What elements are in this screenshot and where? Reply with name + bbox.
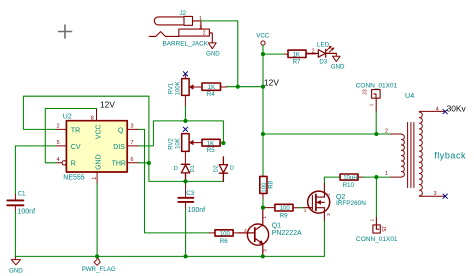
svg-text:1: 1 — [304, 208, 307, 213]
wire junction down to J5 — [375, 177, 377, 217]
wire THR pin to junction — [139, 162, 149, 164]
svg-text:100: 100 — [220, 231, 231, 237]
svg-text:4: 4 — [57, 157, 60, 163]
power flag PWR_FLAG — [94, 256, 100, 265]
svg-text:R10: R10 — [343, 182, 355, 189]
svg-text:DIS: DIS — [113, 144, 125, 151]
svg-text:1: 1 — [369, 103, 374, 106]
connector J5 CONN_01X01 — [373, 217, 380, 233]
svg-text:J5: J5 — [380, 226, 386, 232]
svg-text:2: 2 — [385, 128, 388, 134]
junction NE555 GND pin / PWR_FLAG / rail — [95, 254, 99, 258]
svg-text:RV1: RV1 — [168, 82, 174, 94]
wire barrel pin1 to 12V rail — [201, 21, 238, 87]
svg-text:D: D — [230, 166, 234, 172]
junction VCC / R7 branch — [261, 52, 265, 56]
junction barrel wire / 12V rail — [236, 85, 240, 89]
transformer U4 flyback — [391, 111, 446, 196]
wire C3 bottom to gnd rail — [185, 209, 187, 256]
resistor R7 — [288, 50, 306, 57]
svg-text:THR: THR — [112, 161, 126, 168]
svg-text:100: 100 — [280, 206, 291, 212]
wire R9 to Q2 gate — [299, 207, 304, 209]
svg-text:5: 5 — [57, 140, 60, 146]
svg-text:C3: C3 — [186, 190, 194, 197]
no-connect X at RV1 top — [183, 72, 187, 76]
wire C1 bottom to gnd rail — [14, 211, 16, 256]
svg-text:R8: R8 — [268, 180, 275, 188]
junction D1 / C3 top — [183, 179, 187, 183]
diode D2 — [219, 157, 227, 182]
wire R pin to VCC pin loop — [45, 109, 96, 163]
svg-text:CV: CV — [71, 144, 81, 151]
svg-text:GND: GND — [206, 51, 220, 58]
svg-text:IRFP260N: IRFP260N — [336, 200, 366, 207]
wire TR THR loop — [23, 96, 223, 181]
no-connect X at pin 3 — [443, 194, 447, 198]
svg-text:6: 6 — [131, 157, 134, 163]
connector J2 barrel jack — [149, 16, 212, 43]
resistor R8 — [260, 176, 267, 193]
svg-text:U2: U2 — [63, 114, 72, 121]
diode D1 — [181, 164, 189, 181]
wire R10 to transformer pin1 — [363, 176, 391, 178]
sheet origin marker — [59, 25, 72, 38]
svg-text:2: 2 — [57, 124, 60, 130]
wire NE555 pin1 to rail — [96, 183, 98, 256]
svg-text:1: 1 — [369, 218, 374, 221]
svg-text:BARREL_JACK: BARREL_JACK — [163, 41, 209, 48]
svg-text:R: R — [71, 161, 76, 168]
svg-text:GND: GND — [95, 154, 102, 170]
svg-text:R4: R4 — [207, 91, 215, 98]
wire R8 bottom to junction — [262, 198, 264, 207]
wire 12V to transformer pin2 — [263, 133, 391, 135]
wire Q output to R6 — [139, 129, 210, 233]
svg-text:3: 3 — [263, 249, 268, 252]
svg-text:100nf: 100nf — [188, 207, 206, 214]
wire CV to C1 — [15, 146, 55, 195]
svg-text:30Kv: 30Kv — [447, 103, 467, 113]
ground GND at LED — [333, 53, 340, 61]
wire 12V rail from R4 — [226, 86, 263, 88]
svg-text:R9: R9 — [280, 212, 288, 219]
resistor R6 — [215, 230, 233, 236]
svg-text:1: 1 — [92, 177, 98, 180]
junction Q1 emitter / ground rail — [261, 254, 265, 258]
potentiometer RV2 — [182, 134, 189, 152]
svg-text:Q: Q — [118, 127, 124, 134]
svg-text:J2: J2 — [180, 10, 187, 17]
svg-text:D1: D1 — [190, 165, 196, 172]
wire ground rail — [15, 255, 324, 257]
svg-text:R7: R7 — [293, 58, 301, 65]
svg-text:2: 2 — [312, 48, 315, 54]
resistor R5 — [202, 139, 220, 146]
svg-text:2: 2 — [326, 193, 331, 196]
junction J3 / primary top net — [374, 132, 378, 136]
svg-text:CONN_01X01: CONN_01X01 — [356, 236, 398, 243]
svg-text:2: 2 — [244, 228, 247, 233]
svg-text:VCC: VCC — [95, 124, 102, 139]
svg-text:J3: J3 — [363, 89, 369, 95]
svg-text:GND: GND — [9, 267, 23, 274]
svg-text:R5: R5 — [207, 147, 215, 154]
svg-text:CONN_01X01: CONN_01X01 — [356, 83, 398, 90]
no-connect X at pin 4 — [443, 109, 447, 113]
svg-text:1: 1 — [385, 171, 388, 177]
resistor R10 — [340, 174, 358, 180]
resistor R4 — [202, 83, 221, 90]
junction J5 / primary bottom net — [374, 175, 378, 179]
power VCC — [261, 41, 265, 45]
svg-text:7: 7 — [131, 140, 134, 146]
svg-text:TR: TR — [71, 127, 80, 134]
wire Q2 drain up to R10 rail — [324, 177, 340, 183]
connector J3 CONN_01X01 — [372, 90, 381, 112]
wire DIS net — [139, 121, 224, 146]
junction RV1 bottom / DIS net — [183, 119, 187, 123]
svg-text:U4: U4 — [405, 91, 414, 100]
svg-text:12V: 12V — [100, 100, 115, 110]
potentiometer RV1 — [182, 79, 189, 96]
wire Q2 source down to rail — [323, 221, 325, 256]
svg-text:PWR_FLAG: PWR_FLAG — [82, 266, 116, 273]
svg-text:3: 3 — [131, 124, 134, 130]
junction 12V rail / 12V vertical — [261, 85, 265, 89]
svg-text:100nf: 100nf — [18, 209, 36, 216]
junction THR / TR loop — [147, 161, 151, 165]
svg-text:LED: LED — [317, 41, 330, 48]
junction 12V vertical / primary wire — [261, 132, 265, 136]
svg-text:10K: 10K — [176, 138, 182, 149]
svg-text:D: D — [174, 166, 178, 172]
wire branch to R7 — [263, 53, 285, 55]
capacitor C1 — [7, 200, 23, 205]
svg-text:VCC: VCC — [256, 33, 270, 40]
wire J3 to pin2 net — [375, 111, 377, 134]
svg-text:1: 1 — [262, 216, 267, 219]
ground GND at barrel jack — [208, 43, 216, 49]
IC U2 NE555 — [56, 109, 139, 183]
svg-text:1K: 1K — [293, 52, 300, 58]
junction C3 bottom / rail — [184, 254, 188, 258]
svg-text:flyback: flyback — [434, 150, 466, 160]
svg-text:Q1: Q1 — [272, 222, 281, 229]
svg-text:PN2222A: PN2222A — [272, 230, 302, 237]
svg-text:D3: D3 — [319, 58, 327, 65]
svg-text:C1: C1 — [18, 190, 26, 197]
svg-text:R6: R6 — [220, 238, 228, 245]
junction R8 / R9 / Q1 collector — [261, 206, 265, 210]
svg-text:100K: 100K — [176, 81, 182, 95]
svg-text:4: 4 — [436, 106, 439, 112]
svg-text:10uH: 10uH — [343, 176, 357, 182]
svg-text:GND: GND — [331, 63, 345, 70]
ground GND bottom left — [11, 256, 20, 264]
transistor Q2 IRFP260N — [308, 191, 330, 213]
svg-text:NE555: NE555 — [63, 175, 85, 182]
resistor R9 — [275, 204, 293, 211]
svg-text:2: 2 — [203, 31, 206, 37]
no-connect X at RV2 top — [183, 127, 187, 131]
svg-text:RV2: RV2 — [168, 138, 174, 150]
junction R5 / D2 net — [221, 141, 225, 145]
wire RV1 bottom to DIS net — [184, 106, 186, 121]
LED D3 — [306, 46, 336, 57]
capacitor C3 — [178, 198, 193, 202]
svg-text:3: 3 — [326, 213, 331, 216]
transistor Q1 PN2222A — [247, 224, 268, 245]
svg-text:D2: D2 — [213, 165, 219, 172]
svg-text:8: 8 — [91, 115, 94, 121]
svg-text:3: 3 — [434, 191, 437, 197]
svg-text:12V: 12V — [264, 77, 279, 87]
wire VCC down to 12V rail — [262, 45, 264, 176]
